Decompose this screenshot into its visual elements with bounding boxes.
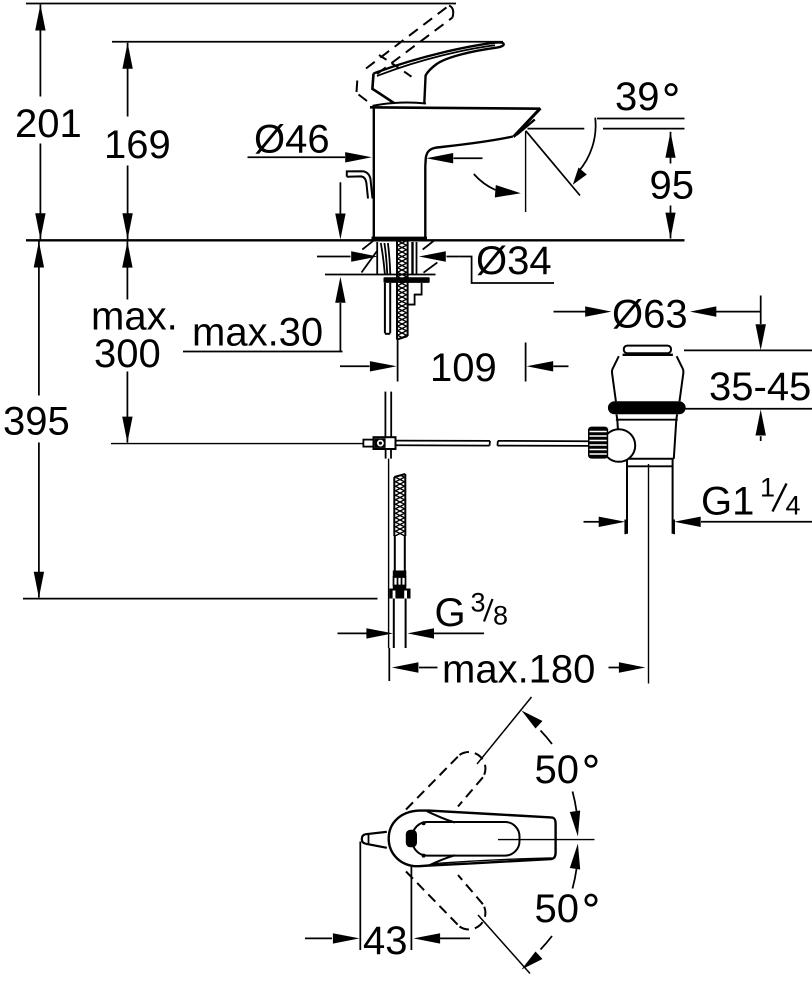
dashed handle rotated up 50deg — [406, 752, 485, 809]
dimension 395 — [34, 242, 44, 598]
spout top edge — [370, 107, 540, 108]
50deg angle leg upper — [477, 697, 532, 764]
dimension 109 — [340, 340, 569, 382]
svg-text:395: 395 — [3, 400, 70, 444]
svg-text:G: G — [435, 591, 466, 635]
dashed handle rotated down 50deg — [406, 872, 485, 930]
dimension 169 — [122, 43, 132, 240]
svg-text:300: 300 — [94, 332, 161, 376]
svg-text:G1: G1 — [701, 480, 754, 524]
flexible hose above deck — [381, 243, 391, 275]
dimension max.300 — [122, 242, 132, 443]
deck mounting hole walls — [362, 241, 438, 274]
svg-text:max.30: max.30 — [192, 311, 323, 355]
horizontal linkage rod — [111, 441, 588, 446]
G3/8 connector pipe — [394, 599, 406, 649]
svg-text:Ø46: Ø46 — [254, 118, 330, 162]
waste knurled knob — [588, 427, 608, 459]
svg-text:Ø34: Ø34 — [476, 239, 552, 283]
waste ball joint — [603, 429, 636, 462]
handle lever raised (dashed) — [357, 6, 454, 102]
deck section hatching — [362, 251, 378, 273]
dimension G1 1/4 — [584, 517, 812, 535]
svg-text:1: 1 — [760, 473, 775, 503]
flexible hose below washer — [385, 283, 390, 334]
reference line (handle closed level) — [112, 41, 503, 43]
hose crimp fitting — [393, 571, 407, 578]
threaded shank (cross-hatched) — [397, 242, 408, 340]
50deg arc lower — [541, 936, 553, 950]
svg-text:109: 109 — [430, 346, 497, 390]
bottom view: handle outer outline — [389, 811, 556, 867]
handle inner lever outline — [413, 822, 520, 856]
svg-text:39: 39 — [615, 75, 660, 119]
aerator end face — [514, 108, 541, 137]
hose plain section — [395, 536, 405, 571]
handle pivot dots — [422, 821, 426, 825]
dimension max.30 — [183, 182, 346, 351]
body dome / handle skirt line — [373, 103, 427, 106]
waste outlet collar and tailpipe — [626, 459, 628, 534]
backnut washer — [384, 277, 430, 283]
svg-text:Ø63: Ø63 — [612, 293, 688, 337]
handle centerline — [498, 839, 595, 841]
long pull rod — [388, 459, 390, 648]
waste funnel sides — [612, 356, 619, 401]
50deg angle leg lower — [478, 915, 530, 974]
deck underside line — [325, 274, 436, 276]
svg-text:43: 43 — [363, 919, 408, 963]
dimension O63 — [554, 306, 761, 316]
dimension O34 with leader — [317, 251, 554, 283]
faucet body right wall — [424, 166, 426, 239]
handle mark (temperature indicator) — [406, 830, 417, 848]
39deg angle leg — [526, 131, 580, 196]
dimension 43 — [305, 842, 470, 951]
svg-text:201: 201 — [15, 102, 82, 146]
faucet body left wall — [370, 103, 541, 239]
39deg arc — [578, 118, 596, 173]
395 bottom reference line (hose end level) — [23, 598, 378, 600]
top reference line (handle raised level) — [26, 3, 456, 5]
rod stub below block — [385, 449, 387, 459]
handle lever (solid) — [372, 42, 503, 103]
pop-up pull rod knob (on body left) — [347, 171, 373, 198]
dimension max.180 — [389, 464, 648, 684]
svg-text:35-45: 35-45 — [709, 365, 811, 409]
svg-text:max.180: max.180 — [442, 648, 595, 692]
svg-text:95: 95 — [650, 164, 695, 208]
svg-text:4: 4 — [786, 491, 801, 521]
waste valve body — [616, 414, 678, 534]
dimension O46 — [248, 152, 483, 163]
spout swivel arc arrow — [474, 174, 496, 190]
svg-text:8: 8 — [493, 601, 508, 631]
dimension 95 — [665, 132, 675, 239]
svg-text:3: 3 — [471, 588, 486, 618]
spout underside curve — [425, 137, 513, 167]
braided supply hose (cross-hatched) — [394, 474, 405, 536]
svg-text:50: 50 — [535, 887, 580, 931]
aerator centerline — [525, 131, 527, 212]
dimension 201 — [35, 5, 45, 240]
hose end nut — [389, 589, 410, 599]
pop-up linkage vertical rod (upper) — [363, 392, 395, 648]
svg-text:169: 169 — [104, 123, 171, 167]
backnut stepped profile — [407, 283, 422, 305]
50deg arc upper — [541, 731, 553, 745]
waste seal ring — [608, 401, 686, 414]
pop-up waste: top plug cap — [612, 346, 683, 402]
dimension G 3/8 — [338, 628, 485, 638]
svg-text:50: 50 — [535, 748, 580, 792]
aerator nozzle (bottom view) — [362, 832, 387, 848]
mounting deck line — [26, 239, 685, 241]
faucet base bar — [372, 237, 428, 241]
linkage T-block — [374, 437, 396, 449]
dimension 35-45 — [682, 296, 812, 442]
